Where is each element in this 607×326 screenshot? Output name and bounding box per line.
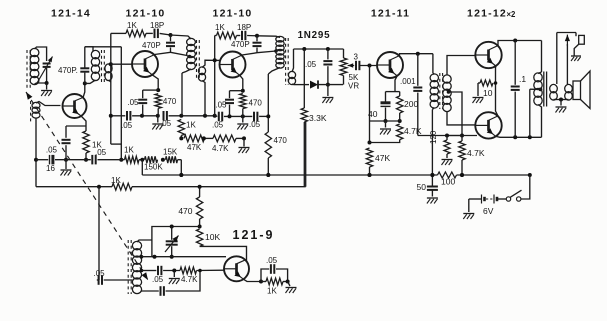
svg-text:1K: 1K bbox=[124, 146, 134, 155]
svg-text:1N295: 1N295 bbox=[298, 30, 331, 41]
svg-text:VR: VR bbox=[348, 82, 359, 91]
svg-text:.1: .1 bbox=[519, 74, 526, 84]
svg-text:3.3K: 3.3K bbox=[309, 113, 327, 123]
svg-text:1K: 1K bbox=[186, 121, 196, 130]
svg-text:470: 470 bbox=[274, 136, 288, 145]
svg-text:1K: 1K bbox=[127, 21, 137, 30]
svg-text:4.7K: 4.7K bbox=[404, 126, 422, 136]
svg-text:×2: ×2 bbox=[507, 10, 517, 19]
svg-text:470: 470 bbox=[178, 206, 192, 216]
svg-text:470P.: 470P. bbox=[58, 66, 78, 75]
svg-text:121-14: 121-14 bbox=[51, 8, 91, 20]
svg-text:4.7K: 4.7K bbox=[467, 148, 485, 158]
svg-text:.05: .05 bbox=[212, 121, 224, 130]
svg-text:.05: .05 bbox=[215, 100, 227, 109]
svg-text:.05: .05 bbox=[249, 120, 261, 129]
svg-text:16: 16 bbox=[46, 164, 55, 173]
svg-text:1K: 1K bbox=[215, 23, 225, 32]
svg-text:10: 10 bbox=[483, 88, 493, 98]
svg-text:15K: 15K bbox=[163, 148, 178, 157]
svg-text:40: 40 bbox=[368, 109, 378, 119]
svg-text:120: 120 bbox=[429, 130, 438, 144]
svg-text:121-10: 121-10 bbox=[213, 8, 253, 20]
svg-text:121-12: 121-12 bbox=[467, 8, 507, 20]
svg-text:121-9: 121-9 bbox=[233, 228, 275, 242]
svg-text:47K: 47K bbox=[375, 153, 390, 163]
svg-text:.05: .05 bbox=[94, 269, 106, 278]
svg-text:.05: .05 bbox=[46, 146, 58, 155]
svg-text:.05: .05 bbox=[121, 121, 133, 130]
svg-text:4.7K: 4.7K bbox=[181, 275, 198, 284]
svg-text:47K: 47K bbox=[187, 143, 202, 152]
svg-text:.05: .05 bbox=[160, 119, 172, 128]
svg-text:.05: .05 bbox=[95, 148, 107, 157]
svg-text:1K: 1K bbox=[267, 287, 277, 296]
svg-text:470P: 470P bbox=[142, 41, 161, 50]
svg-text:470: 470 bbox=[163, 97, 177, 106]
svg-text:50: 50 bbox=[417, 182, 427, 192]
svg-text:200: 200 bbox=[404, 99, 418, 109]
svg-text:.05: .05 bbox=[127, 98, 139, 107]
svg-text:6V: 6V bbox=[483, 206, 494, 216]
svg-text:.05: .05 bbox=[305, 60, 317, 69]
svg-text:3: 3 bbox=[354, 53, 359, 62]
svg-text:.05: .05 bbox=[266, 256, 278, 265]
svg-text:121-10: 121-10 bbox=[126, 8, 166, 20]
svg-text:1K: 1K bbox=[111, 176, 121, 185]
svg-text:18P: 18P bbox=[237, 23, 251, 32]
svg-text:100: 100 bbox=[441, 177, 455, 187]
svg-text:121-11: 121-11 bbox=[371, 8, 410, 20]
svg-text:470P: 470P bbox=[231, 40, 250, 49]
svg-text:18P: 18P bbox=[150, 21, 164, 30]
svg-text:4.7K: 4.7K bbox=[212, 144, 229, 153]
svg-text:150K: 150K bbox=[144, 163, 163, 172]
svg-text:10K: 10K bbox=[205, 232, 220, 242]
svg-text:470: 470 bbox=[249, 99, 263, 108]
svg-text:.001: .001 bbox=[400, 77, 416, 86]
svg-text:.05: .05 bbox=[152, 275, 164, 284]
